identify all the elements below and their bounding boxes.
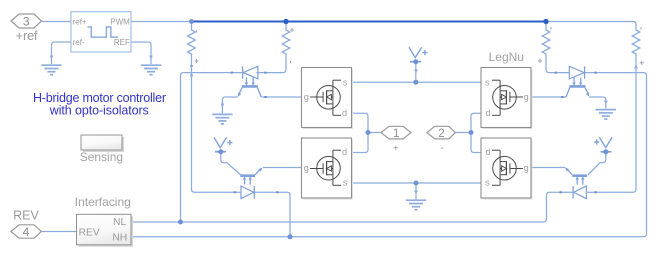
svg-text:s: s [485, 177, 490, 187]
svg-text:d: d [342, 147, 347, 157]
svg-text:g: g [304, 92, 309, 102]
svg-text:+ref: +ref [16, 29, 38, 43]
svg-text:REV: REV [79, 227, 100, 238]
svg-text:4: 4 [23, 225, 30, 239]
svg-text:d: d [485, 147, 490, 157]
svg-text:REF: REF [114, 38, 130, 47]
svg-text:Interfacing: Interfacing [75, 195, 131, 209]
svg-text:s: s [485, 77, 490, 87]
svg-text:s: s [343, 77, 348, 87]
svg-text:Sensing: Sensing [80, 150, 123, 164]
svg-text:g: g [304, 163, 309, 173]
svg-text:NH: NH [112, 232, 127, 243]
svg-text:NL: NL [113, 217, 126, 228]
svg-text:3: 3 [23, 15, 30, 29]
svg-text:d: d [342, 108, 347, 118]
svg-text:s: s [343, 177, 348, 187]
svg-text:+: + [393, 144, 399, 155]
svg-text:2: 2 [438, 128, 444, 140]
svg-text:1: 1 [393, 128, 399, 140]
svg-text:-: - [440, 143, 443, 154]
svg-text:with opto-isolators: with opto-isolators [49, 104, 149, 118]
svg-text:LegNu: LegNu [489, 50, 524, 64]
svg-text:ref-: ref- [73, 38, 85, 47]
svg-text:PWM: PWM [110, 17, 130, 26]
svg-text:g: g [524, 92, 529, 102]
svg-text:REV: REV [13, 209, 39, 223]
svg-text:g: g [524, 163, 529, 173]
svg-text:d: d [485, 108, 490, 118]
svg-text:ref+: ref+ [73, 17, 87, 26]
